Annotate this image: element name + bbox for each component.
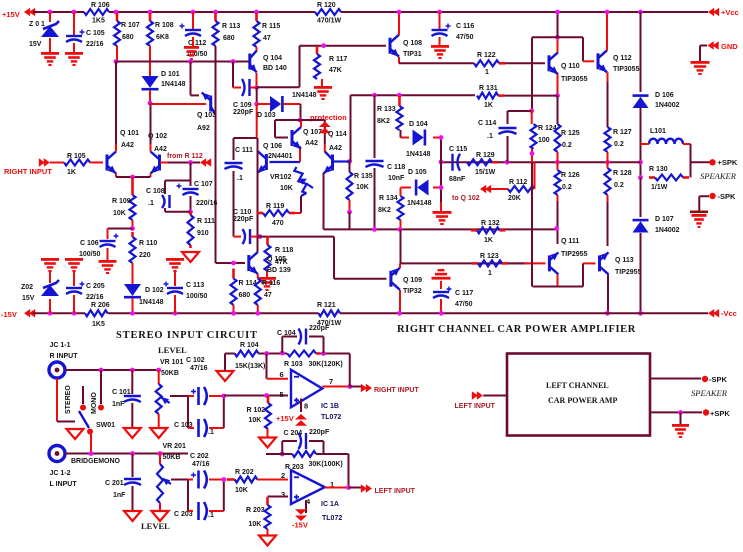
svg-text:1N4002: 1N4002: [655, 102, 680, 109]
wire clamp vertical: [440, 138, 442, 212]
power flag right input chevron: [39, 158, 50, 166]
jack JC1-1: [49, 362, 65, 378]
wire C106 bottom lead: [107, 248, 109, 260]
wire +15V rail segment B: [109, 11, 315, 13]
transistor Q114: [324, 152, 333, 174]
svg-text:STEREO INPUT CIRCUIT: STEREO INPUT CIRCUIT: [116, 330, 258, 341]
wire Q114 base link: [334, 160, 350, 162]
svg-text:R 133: R 133: [377, 106, 396, 113]
svg-text:220pF: 220pF: [233, 109, 254, 116]
svg-text:R 122: R 122: [477, 52, 496, 59]
svg-text:MONO: MONO: [91, 392, 98, 414]
svg-text:C 105: C 105: [86, 30, 105, 37]
wire D107 bottom: [640, 233, 642, 313]
node L gnd tap: [678, 410, 683, 415]
capacitor C113: [164, 282, 184, 295]
svg-text:1K: 1K: [67, 169, 76, 176]
wire R131 row left: [351, 94, 476, 96]
svg-text:RIGHT INPUT: RIGHT INPUT: [374, 387, 419, 394]
node rail-R107: [114, 10, 119, 15]
capacitor C115: [453, 154, 461, 171]
wire Q102 collector up: [150, 103, 152, 144]
svg-text:BD 139: BD 139: [267, 267, 291, 274]
svg-text:10K: 10K: [249, 521, 262, 528]
wire C118 bottom lead: [374, 168, 376, 229]
wire D105 left stub: [401, 187, 412, 189]
resistor R135: [347, 172, 353, 200]
node D105 row: [439, 185, 444, 190]
wire box -SPK: [650, 378, 701, 380]
node D101-Q102C: [148, 101, 153, 106]
svg-text:R 102: R 102: [247, 407, 266, 414]
diode D101: [142, 76, 159, 89]
wire +Vcc rail segment C: [341, 11, 708, 13]
svg-text:20K: 20K: [508, 195, 521, 202]
wire R115 to Q104 emitter: [256, 47, 258, 51]
wire bridge row: [65, 453, 188, 455]
node VR201 top: [158, 451, 163, 456]
svg-text:680: 680: [223, 35, 235, 42]
wire R122 to Q110 base: [505, 62, 545, 64]
svg-text:+SPK: +SPK: [710, 409, 730, 418]
ground R111 triangle: [182, 252, 199, 262]
ground GND flag: [691, 61, 710, 75]
wire R sleeve jog: [57, 421, 75, 423]
svg-text:47/16: 47/16: [190, 365, 208, 372]
node R125 bottom rail: [555, 160, 560, 165]
svg-text:A42: A42: [121, 142, 134, 149]
svg-text:.1: .1: [487, 133, 493, 140]
capacitor C104: [299, 329, 307, 345]
svg-text:2: 2: [281, 471, 285, 480]
svg-text:R 206: R 206: [91, 302, 110, 309]
svg-text:+SPK: +SPK: [718, 158, 738, 167]
transistor Q101: [107, 152, 116, 174]
node rail-Q108: [397, 10, 402, 15]
node R127 R128 junction: [605, 160, 610, 165]
wire D105 right stub: [433, 187, 441, 189]
wire Q103 emitter vert: [190, 62, 192, 96]
wire pole down: [90, 434, 92, 454]
node rail-C105: [72, 10, 77, 15]
svg-text:Q 103: Q 103: [197, 112, 216, 119]
wire corner up to Q108 row: [299, 46, 301, 87]
wire R128 bottom red: [607, 195, 609, 202]
ground R117: [314, 86, 332, 100]
power flag -15V chevron: [24, 309, 35, 317]
wire Q107 base jog v: [274, 120, 276, 138]
svg-text:L101: L101: [650, 128, 666, 135]
wire Q108E to R122: [399, 62, 474, 64]
wire C111 bottom lead: [233, 171, 235, 237]
wire C105 bottom lead: [73, 43, 75, 52]
switch SW01 lever: [79, 411, 89, 428]
svg-text:3: 3: [281, 490, 285, 499]
ground C101: [124, 428, 141, 438]
svg-text:15K(13K): 15K(13K): [235, 363, 265, 370]
svg-text:1N4148: 1N4148: [292, 92, 317, 99]
wire Q113 base stub: [583, 262, 596, 264]
diode D106: [633, 96, 649, 108]
svg-text:TIP2955: TIP2955: [615, 269, 642, 276]
svg-text:220pF: 220pF: [233, 216, 254, 223]
wire driver bus: [324, 228, 558, 230]
node Q114 base: [347, 159, 352, 164]
svg-text:1K: 1K: [484, 102, 493, 109]
svg-text:SW01: SW01: [96, 422, 115, 429]
resistor R124: [531, 124, 537, 149]
svg-text:Q 107: Q 107: [303, 129, 322, 136]
svg-text:R 105: R 105: [67, 153, 86, 160]
ground R104: [217, 371, 234, 381]
wire L101 stub left: [641, 143, 650, 145]
svg-text:R 202: R 202: [235, 469, 254, 476]
wire D106 top lead: [640, 12, 642, 92]
svg-text:C 109: C 109: [233, 102, 252, 109]
wire Q109 emitter up: [399, 263, 401, 268]
node C107 tap: [188, 160, 193, 165]
power flag +15V op chevron: [295, 414, 307, 426]
diode D102: [124, 284, 141, 297]
svg-text:100: 100: [538, 137, 550, 144]
transistor Q104: [249, 51, 257, 73]
wire mono contact stub: [100, 370, 102, 404]
ground R102: [259, 438, 276, 448]
svg-text:D 103: D 103: [257, 112, 276, 119]
svg-text:50KB: 50KB: [161, 370, 179, 377]
wire pin6 vert: [266, 354, 268, 379]
svg-text:CAR POWER AMP: CAR POWER AMP: [548, 396, 617, 405]
node rail-C116: [437, 10, 442, 15]
svg-text:C 110: C 110: [233, 209, 251, 216]
wire jog to Q112 base: [583, 60, 594, 62]
wire R126 to Q111 emitter: [557, 195, 559, 244]
wire D107 top: [640, 178, 642, 218]
wire L101 right leg: [690, 144, 692, 178]
svg-text:D 101: D 101: [161, 71, 180, 78]
svg-text:IC 1B: IC 1B: [321, 403, 339, 410]
svg-text:220pF: 220pF: [309, 325, 330, 332]
power flag -15V op chevron: [295, 509, 307, 521]
svg-text:R 107: R 107: [121, 22, 140, 29]
wire C117 bottom lead: [440, 299, 442, 313]
svg-text:R 131: R 131: [479, 85, 498, 92]
wire R104 row: [225, 353, 235, 355]
wire Q102 emitter down: [150, 174, 152, 178]
wire C104 loop right: [323, 337, 325, 354]
wire Q104C continue down: [256, 104, 258, 138]
svg-text:R 116: R 116: [262, 280, 280, 287]
capacitor C108: [162, 195, 170, 208]
capacitor C112: [180, 24, 202, 37]
transistor Q107: [292, 127, 301, 149]
svg-text:22/16: 22/16: [86, 41, 104, 48]
resistor R123: [472, 260, 508, 266]
svg-text:22/16: 22/16: [86, 294, 104, 301]
wire Q108 collector to rail: [398, 12, 400, 35]
svg-text:47/16: 47/16: [192, 461, 210, 468]
node R135 bottom: [347, 210, 352, 215]
svg-text:0.2: 0.2: [562, 184, 572, 191]
svg-text:220/16: 220/16: [196, 200, 218, 207]
power flag toQ102 chevron: [480, 185, 491, 193]
svg-text:STEREO: STEREO: [65, 385, 72, 414]
wire R107 to node: [116, 46, 118, 62]
node rail-Q110: [555, 10, 560, 15]
wire out vert ic1b: [349, 354, 351, 387]
wire C110 right stub: [251, 236, 258, 238]
wire C102 loop right: [223, 396, 225, 428]
wire Q108 emitter lead: [398, 57, 400, 64]
wire R123 to Q111 base maroon: [508, 262, 524, 264]
wire Q105 emitter down: [257, 274, 259, 279]
wire C202 loop left: [187, 480, 189, 512]
svg-text:R 127: R 127: [613, 129, 632, 136]
capacitor C107: [177, 184, 199, 196]
transistor Q106: [257, 151, 266, 173]
svg-text:R 126: R 126: [561, 172, 580, 179]
svg-text:to Q 102: to Q 102: [452, 195, 480, 202]
power flag protection chevron: [319, 122, 331, 134]
wire Q102 base to flag: [168, 162, 200, 164]
wire R112 right up: [534, 162, 536, 189]
node protection row: [298, 118, 303, 123]
node bus R134: [398, 227, 403, 232]
svg-text:D 107: D 107: [655, 216, 674, 223]
resistor R110: [130, 232, 136, 263]
wire C202 right stub: [209, 479, 224, 481]
resistor R122: [474, 60, 505, 66]
wire bootstrap vertical: [531, 37, 533, 111]
node fb ic1a: [280, 452, 285, 457]
wire pin8 stub: [300, 399, 302, 413]
wire C106 top lead: [107, 229, 109, 240]
svg-text:.1: .1: [148, 200, 154, 207]
svg-text:470: 470: [272, 220, 284, 227]
svg-text:LEVEL: LEVEL: [158, 345, 187, 355]
node R124 bottom: [530, 151, 535, 156]
svg-text:1nF: 1nF: [113, 492, 126, 499]
node rail Q113: [605, 311, 610, 316]
svg-text:1: 1: [485, 69, 489, 76]
wire R134 top lead: [400, 188, 402, 197]
wire C202 left stub: [188, 479, 193, 481]
wire L101 left leg: [640, 144, 642, 178]
wire D102 to rail: [132, 298, 134, 313]
svg-text:BRIDGEMONO: BRIDGEMONO: [71, 458, 121, 465]
wire Q109 base vert: [333, 237, 335, 279]
node rail D107: [638, 311, 643, 316]
svg-text:30K(120K): 30K(120K): [309, 361, 343, 368]
capacitor C103: [199, 419, 207, 437]
resistor R202: [227, 477, 258, 483]
wire GND stub h: [700, 45, 707, 47]
svg-text:TL072: TL072: [321, 414, 341, 421]
svg-text:1N4002: 1N4002: [655, 227, 680, 234]
svg-text:Q 106: Q 106: [263, 143, 282, 150]
node fb ic1b: [280, 351, 285, 356]
resistor R109: [130, 177, 136, 220]
node C101 tap: [130, 368, 135, 373]
wire -15V rail A: [33, 312, 85, 314]
svg-text:1nF: 1nF: [112, 401, 125, 408]
node rail Z02: [48, 311, 53, 316]
switch contact stereo: [80, 405, 86, 411]
capacitor C109: [242, 79, 250, 96]
wire Q114 base up: [350, 95, 352, 161]
resistor R117: [314, 46, 320, 79]
svg-text:R 118: R 118: [275, 247, 293, 254]
resistor R104: [235, 351, 259, 357]
diode D107: [633, 220, 649, 232]
wire VR201 top lead: [159, 454, 161, 465]
svg-text:47K: 47K: [329, 67, 342, 74]
resistor R115: [254, 13, 260, 47]
wire D103 left stub: [257, 103, 270, 105]
zener Z01: [41, 21, 59, 37]
svg-text:Q 110: Q 110: [561, 63, 580, 70]
resistor R128: [605, 168, 611, 195]
svg-text:1N4148: 1N4148: [407, 200, 432, 207]
svg-text:47/50: 47/50: [456, 34, 474, 41]
wire to +SPK: [691, 161, 711, 163]
wire D103 down to protection node: [300, 104, 302, 120]
wire pin7 out red: [322, 386, 350, 388]
svg-text:-Vcc: -Vcc: [721, 309, 737, 318]
svg-text:10K: 10K: [249, 417, 262, 424]
wire C116 top lead: [439, 12, 441, 29]
wire R109 bottom: [132, 220, 134, 229]
transistor Q112: [598, 50, 607, 72]
resistor R206: [85, 310, 108, 316]
svg-text:910: 910: [197, 230, 209, 237]
switch contact mono: [98, 405, 104, 411]
wire R123 to Q111 base: [524, 262, 546, 264]
inductor L101: [649, 139, 683, 144]
svg-text:VR 101: VR 101: [160, 359, 183, 366]
ground C205: [65, 258, 83, 272]
svg-text:R 119: R 119: [266, 203, 284, 210]
wire C109 left stub: [233, 87, 241, 89]
transistor Q103: [202, 93, 216, 115]
capacitor C205: [66, 282, 85, 295]
power flag left input in chevron: [472, 391, 483, 399]
power flag GND chevron: [708, 41, 719, 49]
wire wiper L: [171, 479, 188, 481]
wire R114 bottom: [233, 305, 235, 313]
wire pin5: [224, 395, 288, 397]
node zobel: [439, 160, 444, 165]
svg-text:470/1W: 470/1W: [317, 18, 342, 25]
svg-text:R 130: R 130: [649, 166, 668, 173]
svg-text:680: 680: [122, 34, 134, 41]
resistor R134: [398, 196, 404, 220]
svg-text:Z 0 1: Z 0 1: [29, 21, 45, 28]
ground C117: [432, 269, 451, 280]
svg-text:from R 112: from R 112: [167, 153, 203, 160]
capacitor C102: [191, 387, 207, 405]
terminal L +SPK: [703, 409, 709, 415]
ground C113: [166, 258, 184, 272]
transistor Q102: [151, 152, 160, 174]
wire C108 loop top: [165, 180, 191, 182]
transistor Q109: [391, 268, 400, 290]
ground C105: [65, 52, 83, 66]
wire pin6 h: [267, 378, 289, 380]
capacitor C105: [66, 30, 85, 43]
resistor R203: [265, 497, 271, 529]
svg-text:100/50: 100/50: [79, 251, 101, 258]
svg-text:A42: A42: [329, 145, 342, 152]
wire R127 bottom lead: [607, 152, 609, 162]
node C118 top: [372, 93, 377, 98]
svg-text:1K5: 1K5: [92, 18, 105, 25]
wire VR101 bottom lead: [158, 414, 160, 428]
wire R116 bottom: [257, 305, 259, 313]
wire Q104C to D103 node: [256, 88, 258, 105]
svg-text:1: 1: [488, 270, 492, 277]
wire C104 row right: [309, 336, 324, 338]
wire C201 top lead: [132, 454, 134, 478]
svg-text:C 205: C 205: [86, 283, 105, 290]
wire Q107E down: [299, 146, 301, 162]
svg-text:680: 680: [239, 292, 251, 299]
ground R jack: [67, 429, 84, 439]
svg-text:LEFT INPUT: LEFT INPUT: [375, 488, 416, 495]
wire pin3 h: [268, 496, 289, 498]
zener Z02: [41, 280, 59, 296]
capacitor C110: [243, 229, 251, 244]
wire R110 to D102: [132, 263, 134, 284]
node VR101 top: [156, 368, 161, 373]
wire Q107 collector up: [300, 120, 302, 127]
wire R135 top vert: [349, 162, 351, 173]
resistor R113: [213, 13, 219, 46]
resistor R131: [477, 93, 504, 99]
svg-text:50KB: 50KB: [163, 454, 181, 461]
svg-text:0.2: 0.2: [614, 141, 624, 148]
wire C205 top lead: [73, 270, 75, 286]
diode D103: [270, 96, 282, 112]
node rail Q109: [397, 311, 402, 316]
svg-text:C 117: C 117: [455, 290, 473, 297]
svg-text:R 108: R 108: [155, 22, 174, 29]
svg-text:R 125: R 125: [561, 130, 580, 137]
wire VR102 to R119 node: [300, 196, 302, 213]
svg-text:R 115: R 115: [262, 23, 280, 30]
svg-text:JC 1-1: JC 1-1: [50, 342, 71, 349]
wire R105 to Q101 base: [90, 162, 103, 164]
svg-text:-15V: -15V: [1, 310, 17, 319]
wire R102 gnd lead: [267, 429, 269, 437]
resistor R108: [147, 13, 153, 46]
wire input to R105: [50, 162, 64, 164]
node C107 bottom: [188, 209, 193, 214]
wire Z01 bottom lead: [49, 38, 51, 52]
svg-text:Q 112: Q 112: [613, 55, 632, 62]
wire C116 bottom lead: [439, 37, 441, 45]
node output rail to L101: [638, 160, 643, 165]
wire C111 top lead: [233, 138, 235, 160]
wire C205 bottom lead: [73, 295, 75, 313]
wire +15V rail segment A: [33, 11, 84, 13]
svg-text:TIP32: TIP32: [403, 288, 422, 295]
wire C108 loop tl: [190, 175, 192, 181]
block left channel amp: [507, 354, 650, 436]
svg-text:A42: A42: [154, 146, 167, 153]
wire C110 row right: [258, 236, 335, 238]
wire Q111 collector down: [557, 275, 559, 287]
